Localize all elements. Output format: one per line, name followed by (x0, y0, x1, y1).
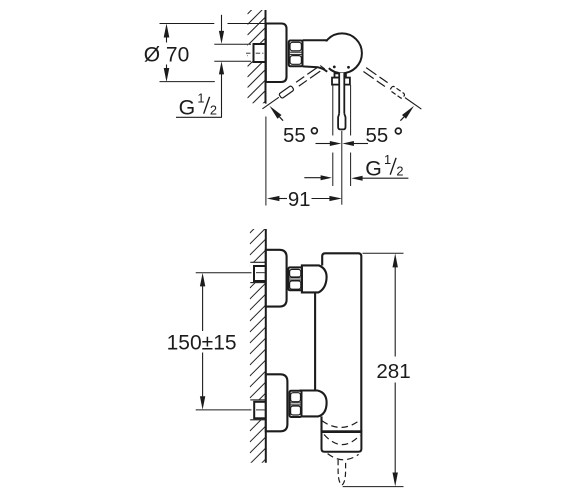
svg-text:55: 55 (283, 125, 306, 147)
svg-text:G: G (365, 156, 382, 180)
angle dimension arrow right (points at handle centerline) (342, 141, 354, 146)
G 1/2 label (top left) (179, 91, 217, 120)
white cutout behind lower wall pipe (250, 400, 266, 420)
Ø70 bottom extension line (160, 81, 215, 83)
upper wall hole top line (250, 261, 265, 263)
lower union tailpiece and inlet horn (301, 391, 327, 417)
hidden outlet arc inside body (322, 420, 360, 428)
91 dimension line (267, 196, 280, 201)
nut waist lines (290, 51, 302, 53)
Ø70 top extension line (160, 23, 215, 25)
hidden dome below collar (328, 454, 359, 460)
body outline: top cap and right edge (322, 253, 361, 431)
right 55° leader arrow (402, 106, 414, 119)
handle lever tip (338, 114, 345, 130)
body left edge below lower horn (320, 416, 322, 431)
hidden arc inside collar (324, 435, 360, 445)
fillet line at connector-circle junction (320, 66, 325, 69)
upper supply pipe (254, 266, 266, 281)
hot indicator dot (333, 66, 336, 69)
left ghost handle (rotated 55°) (261, 67, 321, 111)
G1/2 outlet dimension arrow left (321, 175, 332, 180)
outlet extension line right upper (350, 85, 352, 136)
150±15 dimension (200, 273, 205, 287)
handle lever shaft (339, 73, 344, 114)
svg-text:1: 1 (197, 91, 204, 106)
lever centerline below tip (341, 131, 343, 205)
lower escutcheon flange (front view) (266, 374, 288, 431)
svg-text:150±15: 150±15 (167, 331, 237, 354)
handle neck (335, 73, 346, 77)
svg-text:281: 281 (376, 360, 410, 383)
body left edge between unions (314, 292, 316, 390)
svg-text:91: 91 (288, 189, 311, 211)
nut facet bottom (290, 56, 301, 65)
white cutout behind wall pipe (top view) (248, 44, 266, 61)
pipe centerline (top view) (246, 52, 265, 54)
valve body circle (top view) (322, 33, 362, 73)
supply pipe stub behind wall (top view) (254, 44, 266, 62)
G 1/2 label (right) (365, 152, 403, 181)
lower wall hole top line (250, 399, 265, 401)
outlet extension line right lower (350, 153, 352, 187)
svg-text:55: 55 (366, 125, 389, 147)
mixer body fill (315, 253, 361, 431)
lower pipe centerline / 150 extension line (196, 409, 252, 411)
upper union tailpiece and inlet horn (302, 265, 327, 292)
svg-text:2: 2 (210, 102, 217, 117)
upper wall hole bottom line (250, 282, 265, 284)
281 dimension extension lines (363, 252, 404, 254)
lower wall hole bottom line (250, 419, 265, 421)
svg-text:Ø 70: Ø 70 (144, 44, 190, 67)
wall face line (top view) (265, 10, 267, 103)
lower leader with up arrow, to G 1/2 label (219, 61, 224, 74)
wall face extension line (upper segment) (265, 102, 267, 105)
G1/2 outlet dimension arrow right (351, 176, 362, 181)
wall pipe bottom extension line (214, 60, 251, 62)
upper leader with down arrow (221, 15, 223, 32)
upper nut waist lines (289, 277, 301, 279)
escutcheon flange (top view, seen from side) (266, 24, 287, 83)
outlet extension line left lower (332, 153, 334, 187)
handle collar (332, 78, 350, 85)
wall hatching (top view) (248, 0, 266, 130)
cold indicator dot (347, 66, 350, 69)
outlet extension line left upper (332, 85, 334, 136)
svg-text:G: G (179, 95, 196, 119)
Ø70 dimension line with outward arrows (164, 24, 170, 38)
svg-text:1: 1 (384, 152, 391, 167)
lower union nut (290, 391, 302, 417)
upper escutcheon flange (front view) (266, 250, 287, 307)
281 dimension line (393, 253, 398, 267)
union nut (top view) (289, 41, 303, 67)
right ghost handle (rotated 55°) (363, 67, 423, 111)
angle dimension arrow left (points at handle centerline) (330, 141, 342, 146)
left 55° leader arrow (269, 106, 281, 119)
connector body between nut and valve (top view, occludes circle left arc) (303, 41, 334, 70)
hidden hose nipple (338, 460, 346, 485)
nut facet top (290, 42, 301, 51)
white cutout behind upper wall pipe (250, 262, 266, 282)
wall face line (bottom view) (265, 229, 267, 463)
outlet collar (322, 431, 362, 451)
wall hatching (bottom view) (250, 217, 266, 486)
wall pipe top extension line (214, 43, 251, 45)
lower nut waist lines (290, 402, 301, 404)
svg-text:2: 2 (396, 163, 403, 178)
upper pipe centerline / 150 extension line (196, 272, 252, 274)
upper union nut (288, 267, 302, 290)
lower supply pipe (254, 402, 266, 419)
